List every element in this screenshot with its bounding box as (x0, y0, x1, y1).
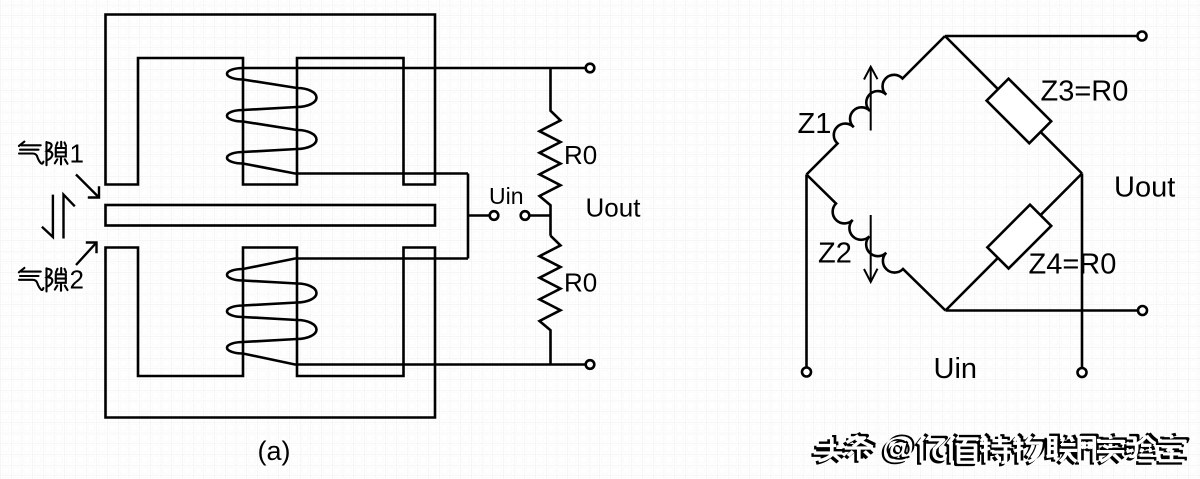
terminal left bottom (802, 368, 811, 377)
watermark 头条 @亿佰特物联网实验室 (811, 430, 1187, 467)
resistor R0 (bottom) (540, 236, 561, 365)
terminal top right (1138, 32, 1147, 41)
terminal (top output) (586, 64, 595, 73)
resistor R0 (top) (540, 68, 561, 236)
svg-text:Z4=R0: Z4=R0 (1029, 249, 1117, 281)
inductor Z2 branch (807, 175, 946, 311)
watermark shadow lower-left (811, 434, 1182, 467)
arrow through Z2 (864, 215, 878, 282)
bridge: left node wire down (805, 175, 808, 368)
armature motion double arrow (42, 195, 75, 239)
resistor Z4 box (987, 205, 1051, 269)
bottom E-core (lower magnetic core) (106, 248, 436, 418)
svg-text:R0: R0 (564, 268, 597, 298)
coil W1 (upper winding) with wire to top terminal (227, 68, 586, 174)
bridge: wire top node to terminal (945, 35, 1138, 38)
bridge: wire bottom node to terminal (946, 309, 1139, 312)
arrow to air gap 2 (76, 243, 97, 266)
resistor Z3 branch line (945, 36, 1082, 174)
terminal Uin left (490, 211, 499, 220)
svg-text:R0: R0 (564, 140, 597, 170)
svg-text:1: 1 (70, 138, 84, 168)
top E-core (upper magnetic core) (106, 15, 436, 185)
svg-text:Z2: Z2 (818, 238, 852, 270)
watermark white body (814, 432, 1185, 465)
wire Uin right terminal to divider midpoint (529, 214, 550, 217)
svg-text:Z3=R0: Z3=R0 (1041, 76, 1129, 108)
wire connecting windings (series junction) (467, 174, 470, 259)
label 气隙1 glyphs (19, 142, 68, 166)
wire tap to Uin left terminal (468, 214, 490, 217)
terminal (bottom output) (586, 360, 595, 369)
terminal bottom right (1138, 306, 1147, 315)
coil W2 (lower winding) with wire to bottom terminal (227, 259, 586, 365)
svg-text:2: 2 (70, 265, 84, 295)
terminal Uin right (521, 211, 530, 220)
terminal right bottom (1078, 368, 1087, 377)
svg-text:Uout: Uout (586, 193, 642, 223)
arrow through Z1 (864, 67, 878, 131)
label 气隙2 glyphs (19, 268, 68, 292)
bridge: right node wire down (1081, 174, 1084, 369)
resistor Z4 branch line (946, 174, 1083, 311)
svg-text:Z1: Z1 (798, 108, 832, 140)
svg-text:Uout: Uout (1114, 172, 1175, 204)
svg-text:Uin: Uin (489, 183, 524, 209)
inductor Z1 branch (807, 36, 946, 175)
svg-text:(a): (a) (258, 436, 291, 466)
watermark shadow upper-right (816, 430, 1187, 463)
arrow to air gap 1 (76, 175, 99, 198)
svg-text:Uin: Uin (934, 353, 978, 385)
armature bar (movable core) (106, 205, 436, 226)
resistor Z3 box (987, 79, 1052, 144)
